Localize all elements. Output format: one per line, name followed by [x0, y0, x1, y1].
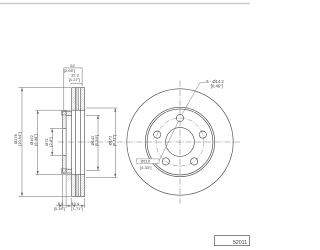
- hatch ring top inboard plate: [81, 88, 85, 111]
- svg-text:[6.77"]: [6.77"]: [111, 135, 116, 146]
- dim 8.6 ext left: [62, 175, 64, 208]
- friction ring outline: [72, 88, 85, 197]
- dim O172 ext bottom: [86, 176, 117, 178]
- dim 52 bracket: [64, 68, 82, 70]
- dim 32.3 bracket: [71, 83, 82, 84]
- hatch ring bottom inboard plate: [81, 175, 85, 197]
- bolt circle: [156, 118, 204, 166]
- bolt hole lower-left: [162, 158, 169, 165]
- arrow O172 bottom: [114, 174, 116, 178]
- outer circle: [127, 89, 233, 195]
- hat inner circle: [147, 109, 213, 175]
- dim O172 ext top: [86, 107, 117, 109]
- arrow O162 top: [37, 110, 39, 114]
- dim 43.4 ext left: [71, 198, 73, 208]
- hat flange plate: [63, 112, 66, 174]
- arrow 43.4 left: [72, 205, 76, 207]
- hatch ring bottom outboard plate: [72, 175, 76, 197]
- label O110 box: [137, 159, 159, 164]
- dim O142 ext top: [86, 114, 100, 116]
- hat flange bottom lip: [61, 169, 66, 174]
- svg-text:[0.34"]: [0.34"]: [54, 206, 65, 211]
- arrow O278 bottom: [21, 193, 23, 197]
- dim O142 line right: [97, 115, 99, 170]
- dim O71 line: [51, 129, 53, 156]
- hat wall top: [66, 112, 72, 116]
- bolt hole top: [176, 114, 183, 121]
- hat flange hatch upper: [63, 112, 66, 129]
- dim O278 ext bottom: [19, 195, 71, 197]
- arrowheads: [21, 88, 117, 207]
- dim 43.4 ext right: [84, 198, 86, 208]
- hat wall top hatch: [66, 112, 72, 116]
- vane mid line bottom: [76, 175, 78, 197]
- center bore circle: [166, 128, 195, 157]
- center bore edge bottom: [63, 155, 66, 157]
- ring ID edge bottom: [72, 174, 85, 176]
- dim 8.6 ext right: [65, 175, 67, 208]
- arrow 43.4 right: [81, 205, 85, 207]
- dim O278 ext top: [19, 87, 71, 89]
- hat wall bottom: [66, 169, 72, 173]
- arrow O142 top: [97, 115, 99, 119]
- arrow O142 bottom: [97, 167, 99, 171]
- dim 43.4 line: [72, 205, 85, 207]
- arrow 8.6 right: [66, 205, 70, 207]
- ring plate line outboard: [75, 88, 77, 197]
- top gray rule: [0, 3, 250, 5]
- svg-text:52011: 52011: [233, 240, 247, 246]
- arrow O172 top: [114, 108, 116, 112]
- svg-text:[10.94"]: [10.94"]: [17, 132, 22, 146]
- svg-text:[0.46"]: [0.46"]: [211, 84, 223, 89]
- horizontal centerline (axis): [58, 141, 240, 143]
- FRONT VIEW: [127, 89, 233, 195]
- arrow 8.6 left: [59, 205, 63, 207]
- dim O71 ext top: [50, 128, 62, 130]
- dim 8.6 line: [56, 205, 71, 207]
- arrow O162 bottom: [37, 171, 39, 175]
- hat flange top lip: [61, 110, 66, 115]
- dim 52 ext left: [63, 70, 65, 111]
- svg-text:[6.38"]: [6.38"]: [33, 134, 38, 145]
- svg-text:[2.8"]: [2.8"]: [48, 137, 53, 146]
- svg-text:[5.59"]: [5.59"]: [94, 135, 99, 146]
- ring plate line inboard: [80, 88, 82, 197]
- center bore edge top: [63, 128, 66, 130]
- bolt hole upper-left: [154, 131, 161, 138]
- arrow O278 top: [21, 88, 23, 92]
- dim O172 line right: [114, 108, 116, 177]
- svg-text:[4.33"]: [4.33"]: [140, 165, 151, 170]
- svg-text:[1.27"]: [1.27"]: [69, 77, 80, 82]
- dim O162 line: [37, 110, 39, 174]
- hatch ring top outboard plate: [72, 88, 76, 111]
- dim O278 line: [21, 88, 23, 197]
- leader 5-O14.2: [182, 83, 206, 115]
- title block box: [215, 236, 250, 246]
- front view vertical centerline: [179, 81, 181, 204]
- dim O71 ext bottom: [50, 155, 62, 157]
- bolt hole lower-right: [191, 158, 198, 165]
- hat flange hatch lower: [63, 156, 66, 174]
- arrow O71 top: [51, 129, 53, 133]
- hat outer circle: [145, 107, 214, 176]
- vane mid line top: [76, 88, 78, 111]
- dim O162 ext top: [36, 109, 71, 111]
- dim 52 ext right: [81, 70, 83, 87]
- dim O142 ext bottom: [86, 169, 100, 171]
- svg-text:Ø110: Ø110: [141, 159, 151, 164]
- bolt hole upper-right: [199, 131, 206, 138]
- DIMENSIONS: [19, 68, 118, 208]
- leader O110: [159, 121, 178, 161]
- dim O162 ext bottom: [36, 174, 71, 176]
- hat wall bottom hatch: [66, 169, 72, 173]
- hat wall bottom fillet: [67, 173, 72, 181]
- ring ID edge top: [72, 109, 85, 111]
- svg-text:[1.71"]: [1.71"]: [71, 206, 82, 211]
- arrow O71 bottom: [51, 152, 53, 156]
